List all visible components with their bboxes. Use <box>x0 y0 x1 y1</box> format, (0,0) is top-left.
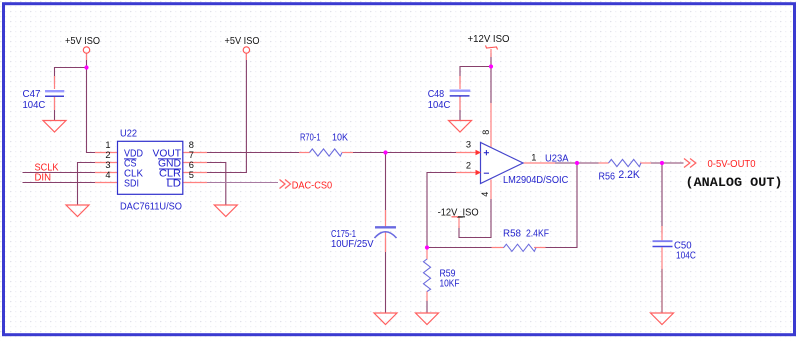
resistor R56 2.2K <box>599 159 642 182</box>
ground (U22 CS) <box>66 205 89 217</box>
wire +5V ISO rail down to U22 pin 1 <box>87 53 96 153</box>
wire +12V junction up to symbol <box>490 53 492 67</box>
svg-text:8: 8 <box>189 140 194 150</box>
capacitor C47 <box>23 89 65 111</box>
wire C50 bottom to ground <box>661 268 663 313</box>
svg-text:4: 4 <box>105 170 110 180</box>
svg-text:6: 6 <box>189 160 194 170</box>
ground (C47) <box>43 121 66 133</box>
power +12V ISO <box>468 34 510 50</box>
wire U22 pin2 CS to ground <box>78 163 96 205</box>
op-amp pin 8 (top) <box>490 103 492 148</box>
svg-text:1: 1 <box>531 152 536 162</box>
power +5V ISO (left) <box>65 36 100 53</box>
C48 pins <box>459 76 461 89</box>
resistor R59 10KF <box>423 259 459 292</box>
svg-text:3: 3 <box>466 140 471 150</box>
wire U22 pin7 GND to ground <box>206 163 226 205</box>
capacitor C48 <box>428 89 471 111</box>
off-page 0-5V-OUT0 <box>684 159 756 171</box>
svg-text:4: 4 <box>480 192 490 197</box>
junction output/C50 <box>660 161 664 165</box>
svg-text:8: 8 <box>481 130 491 135</box>
svg-text:SDI: SDI <box>124 179 139 190</box>
svg-text:DIN: DIN <box>35 173 52 184</box>
wire op-amp output to R56 <box>555 162 599 164</box>
wire feedback tap down to R58 <box>545 163 577 248</box>
ground (R59) <box>416 313 439 325</box>
svg-text:-12V_ISO: -12V_ISO <box>438 208 479 219</box>
junction output/feedback <box>575 161 579 165</box>
svg-text:DAC-CS0: DAC-CS0 <box>292 181 333 192</box>
resistor R58 2.4KF <box>503 229 549 252</box>
R70-1 leads <box>299 152 310 154</box>
wire U22 pin5 LD to DAC-CS0 (lighter mauve) <box>206 182 278 184</box>
+ input mark <box>484 150 489 155</box>
svg-text:LD: LD <box>167 179 182 190</box>
svg-text:C48: C48 <box>428 89 445 100</box>
svg-text:10K: 10K <box>332 133 348 144</box>
junction +5V/C47 <box>84 65 88 69</box>
wire R58 to node <box>427 247 492 249</box>
svg-text:+5V ISO: +5V ISO <box>65 36 100 47</box>
svg-text:C47: C47 <box>23 89 41 100</box>
C50 pins <box>661 226 663 240</box>
svg-text:+12V ISO: +12V ISO <box>468 34 510 45</box>
svg-text:2: 2 <box>466 161 471 171</box>
svg-text:104C: 104C <box>676 251 696 262</box>
wire C47 bottom to ground <box>54 97 56 121</box>
svg-text:1: 1 <box>105 140 110 150</box>
wire DIN to U22 pin4 <box>23 182 96 184</box>
op-amp pin 4 (bottom) <box>490 180 492 200</box>
svg-text:104C: 104C <box>428 100 451 111</box>
R56 leads <box>599 162 609 164</box>
capacitor C50 <box>653 240 697 261</box>
ground (C50) <box>651 313 674 325</box>
C175-1 pins <box>385 210 387 227</box>
svg-text:0-5V-OUT0: 0-5V-OUT0 <box>708 159 756 170</box>
svg-text:10KF: 10KF <box>440 279 460 290</box>
svg-text:U22: U22 <box>120 129 137 140</box>
svg-text:R70-1: R70-1 <box>300 133 321 144</box>
wire output node down to C50 <box>661 163 663 234</box>
+12V symbol stem <box>490 49 492 57</box>
svg-text:2: 2 <box>105 150 110 160</box>
svg-text:2.4KF: 2.4KF <box>526 229 549 240</box>
ground (C48) <box>449 121 472 133</box>
wire op-amp -input to feedback node <box>427 173 457 248</box>
svg-text:2.2K: 2.2K <box>618 169 640 181</box>
R59 leads <box>426 248 428 260</box>
op-amp output pin <box>523 162 555 164</box>
C47 pins <box>54 76 56 89</box>
svg-text:104C: 104C <box>23 100 46 111</box>
+5V symbol stems <box>86 54 88 61</box>
wire node to C175-1 <box>385 153 387 222</box>
wire U22 pin6 CLR to +5V ISO <box>206 53 246 173</box>
U22 left pin stubs 1-4 <box>95 152 118 154</box>
wire +12V junction down (op-amp pin 8) <box>490 67 492 104</box>
wire +12V junction to C48 <box>460 67 491 85</box>
- input mark <box>484 172 489 174</box>
U22 right pin stubs 8-5 <box>182 152 207 154</box>
wire C48 bottom to ground <box>459 97 461 121</box>
svg-text:LM2904D/SOIC: LM2904D/SOIC <box>503 175 569 186</box>
op-amp input pins <box>456 152 476 154</box>
junction +12V/C48 <box>489 64 493 68</box>
svg-text:R56: R56 <box>599 172 616 183</box>
wire R70-1 to op-amp +input <box>353 152 458 154</box>
svg-text:5: 5 <box>189 170 194 180</box>
off-page DAC-CS0 <box>280 180 333 192</box>
wire R56 to output arrow <box>651 162 684 164</box>
-12V symbol stem <box>458 217 460 228</box>
capacitor C175-1 (polarized) <box>331 227 397 250</box>
wire SCLK to U22 pin3 <box>23 172 96 174</box>
wire C175-1 bottom to ground <box>385 239 387 313</box>
junction R58/R59 <box>425 245 429 249</box>
svg-text:3: 3 <box>105 160 110 170</box>
input arrow pin 2 <box>476 170 482 175</box>
svg-text:DAC7611U/SO: DAC7611U/SO <box>120 202 182 213</box>
svg-text:(ANALOG OUT): (ANALOG OUT) <box>686 175 783 190</box>
svg-text:+5V ISO: +5V ISO <box>225 36 260 47</box>
svg-text:10UF/25V: 10UF/25V <box>331 239 374 250</box>
wire R59 bottom to ground <box>426 300 428 313</box>
resistor R70-1 10K <box>300 133 348 157</box>
input arrow pin 3 <box>476 150 482 155</box>
power +5V ISO (CLR) <box>225 36 260 53</box>
wire U22 pin8 VOUT to R70-1 <box>206 152 300 154</box>
ground (C175-1) <box>374 313 397 325</box>
ground (U22 GND) <box>214 205 237 217</box>
svg-text:U23A: U23A <box>545 154 569 165</box>
R58 leads <box>492 247 504 249</box>
junction R70/C175 node <box>383 150 387 154</box>
svg-text:7: 7 <box>189 150 194 160</box>
wire -12V symbol to op-amp pin 4 <box>459 199 491 238</box>
wire junction to C47 <box>55 68 87 85</box>
power -12V_ISO <box>438 208 479 219</box>
svg-text:R58: R58 <box>503 229 521 240</box>
